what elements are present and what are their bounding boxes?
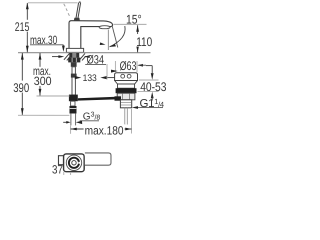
svg-text:133: 133 <box>83 73 97 84</box>
svg-text:390: 390 <box>13 81 29 95</box>
dimension 390 vertical line <box>21 53 23 115</box>
cartridge inner circle <box>72 161 76 165</box>
vertical reference line <box>107 30 109 51</box>
svg-text:15°: 15° <box>126 12 142 26</box>
deck line <box>18 52 151 54</box>
svg-text:110: 110 <box>136 35 152 49</box>
37 extension ticks <box>63 172 65 175</box>
angle arc <box>110 26 126 47</box>
G 1 1/4 underline <box>137 107 163 109</box>
body (top view) <box>64 154 85 172</box>
Ø34 underline <box>85 63 106 65</box>
svg-text:300: 300 <box>34 74 52 88</box>
215 bottom arrow <box>26 46 29 53</box>
pop-up rod (horizontal) <box>78 97 120 101</box>
svg-text:215: 215 <box>15 20 30 34</box>
390 top arrow <box>21 53 24 60</box>
max.180 extension tick left <box>70 126 72 134</box>
arc arrowhead right <box>110 44 116 47</box>
max.300 label (two lines) <box>33 67 53 86</box>
threaded shank through deck <box>69 53 72 58</box>
arc arrowhead left <box>100 42 106 45</box>
max.30 underline <box>30 44 63 46</box>
aerator ellipse at spout underside <box>99 26 110 29</box>
drain body cylinder <box>117 84 134 88</box>
hose pipe below tee <box>71 101 75 106</box>
max.300 bottom arrow <box>39 89 42 96</box>
390 label <box>13 81 31 93</box>
tee fitting <box>69 95 78 102</box>
215 top arrow <box>26 3 29 10</box>
drain tailpipe <box>120 100 131 108</box>
hose connector <box>69 106 76 114</box>
mounting nut <box>68 58 80 63</box>
dimension Ø34 left arrow <box>52 56 62 58</box>
svg-text:37: 37 <box>52 162 63 175</box>
lever base <box>74 18 80 21</box>
flange underside <box>115 81 138 85</box>
rubber gasket <box>116 88 137 93</box>
215 label <box>14 20 30 32</box>
dimension 133 <box>75 76 82 79</box>
dimension 215 vertical line <box>26 3 28 52</box>
svg-text:Ø63: Ø63 <box>120 59 137 73</box>
extension line flange bottom <box>139 79 159 81</box>
deck hatching right of hole <box>80 53 86 60</box>
lever tab (top view) <box>58 156 63 165</box>
dimension Ø63 arrows <box>111 70 118 73</box>
rod into nut <box>114 96 121 100</box>
max.300 top arrow <box>39 53 42 60</box>
dimension max.300 vertical line <box>39 53 41 96</box>
max.180 extension tick right <box>130 109 132 133</box>
pipe joint ring <box>71 74 77 78</box>
G 3/8 right arrow <box>76 121 82 124</box>
drain extension ticks for Ø63 <box>114 61 116 72</box>
390 bottom arrow <box>21 108 24 115</box>
dashed lever motion marks <box>64 4 70 16</box>
max.30 leader <box>62 45 64 47</box>
dimension max.180 line <box>71 128 132 130</box>
plug slot circles <box>121 74 125 78</box>
max.180 label <box>84 124 125 135</box>
base plinth <box>66 48 83 52</box>
hose thread wall lines <box>70 114 72 126</box>
drain nut <box>117 93 135 100</box>
133 right extension tick <box>106 64 108 80</box>
extension line: lever top level <box>28 2 77 4</box>
extension line at max.300 level <box>36 95 69 97</box>
spout (top view) <box>85 153 111 165</box>
G 1 1/4 arrow <box>132 106 138 109</box>
G 3/8 underline <box>80 120 99 122</box>
110 label <box>135 36 153 47</box>
15-degree reference line from spout tip <box>114 23 147 25</box>
deck hatching left of hole <box>64 53 71 60</box>
water stream slant line <box>112 27 118 48</box>
tail line below <box>124 108 126 125</box>
cartridge thick ring <box>69 158 79 168</box>
shank stub <box>71 62 77 66</box>
svg-text:max.180: max.180 <box>85 123 124 137</box>
max.30 arrow <box>62 46 65 52</box>
lever handle <box>76 2 81 19</box>
G 3/8 left arrow <box>63 121 66 123</box>
dimension 40-53 top leader from Ø63 arrow <box>146 65 152 67</box>
drain flange <box>115 73 138 81</box>
dimension Ø34 right arrow <box>84 55 90 58</box>
dimension 110 vertical line <box>137 25 139 34</box>
cartridge outer circle <box>66 155 81 170</box>
supply pipe <box>72 67 75 95</box>
extension line at 390 level <box>18 114 69 116</box>
faucet body and spout outline <box>69 21 113 49</box>
extension line nut top <box>137 91 158 93</box>
40-53 bottom arrow <box>151 92 154 99</box>
